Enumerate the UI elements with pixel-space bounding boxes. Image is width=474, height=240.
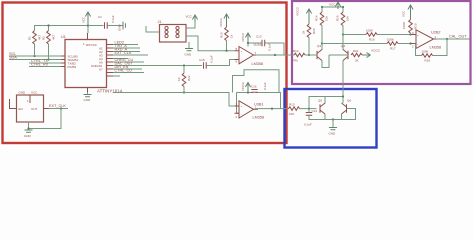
wire: net stub EXT_CLK: [113, 54, 148, 56]
wire: R20 bottom to mirror base rail: [308, 38, 310, 56]
svg-text:CAL_OUT: CAL_OUT: [449, 35, 467, 39]
svg-text:VCC/2: VCC/2: [371, 49, 380, 53]
wire: staircase link net: [233, 70, 280, 93]
wire: R19 to +input node: [410, 33, 412, 35]
svg-text:+: +: [241, 49, 243, 53]
wire: Q3 collector diode link: [322, 55, 348, 68]
wire: upper sense net to U2B2: [343, 34, 411, 36]
junction R22 bottom on DAC return wire: [183, 91, 185, 93]
op-amp U2B2: [411, 30, 441, 50]
wire: DAC_OUT long net to filter: [113, 65, 202, 67]
pin stub U1 top (VCC pin): [87, 33, 89, 40]
svg-text:U3B1: U3B1: [254, 102, 264, 106]
pin stubs U1 left: [61, 56, 65, 67]
resistor R18 100K: [422, 50, 433, 63]
capacitor C15 0.1uF (DAC series): [199, 55, 214, 69]
svg-text:GND: GND: [84, 98, 92, 102]
svg-text:R21: R21: [353, 49, 359, 53]
wire: R15 to Q4 emitter: [342, 26, 344, 51]
svg-text:+: +: [241, 105, 243, 109]
svg-text:GND: GND: [185, 53, 193, 57]
svg-text:R18: R18: [425, 59, 431, 63]
svg-text:CTRL_CU: CTRL_CU: [115, 69, 133, 73]
ground under J1: [185, 49, 194, 57]
wire: net stub A7: [113, 75, 120, 77]
resistor R13 10K: [289, 103, 300, 117]
wire: SDA net: [9, 59, 61, 61]
svg-text:RX/B3: RX/B3: [68, 65, 77, 69]
wire: Q6 emitter to gnd rail: [333, 114, 342, 120]
junction sense tap lower: [321, 42, 323, 44]
junction at feedback arrow: [247, 91, 249, 93]
svg-text:VCC/2: VCC/2: [296, 7, 300, 16]
wire: R1 bottom: [34, 44, 36, 56]
svg-text:EN: EN: [19, 107, 23, 111]
wire: J1 top-right pin to VCC: [186, 21, 195, 28]
resistor R1: [28, 31, 42, 45]
junction at VCC feed: [87, 24, 89, 26]
transistor Q3: [317, 44, 322, 61]
wire: C14 bottom to ground rail: [309, 109, 333, 120]
svg-text:-: -: [241, 58, 242, 62]
svg-text:100K: 100K: [366, 29, 373, 33]
svg-text:R12: R12: [293, 49, 299, 53]
svg-text:10k: 10k: [325, 16, 329, 21]
wire: EXT_CLK net at oscillator: [49, 108, 68, 110]
svg-text:J1: J1: [158, 20, 162, 24]
svg-text:R13: R13: [289, 103, 295, 107]
wire: CTRL_RX net: [29, 66, 61, 68]
svg-text:C13: C13: [256, 35, 262, 39]
capacitor C16 (U3B1 feedback): [251, 82, 267, 92]
svg-text:EXT_CLK: EXT_CLK: [49, 104, 66, 108]
junction at U2B2 -input: [409, 42, 411, 44]
svg-text:10k: 10k: [346, 16, 350, 21]
transistor Q6: [342, 99, 352, 115]
supply VCC/2 small arrow at feedback: [241, 33, 251, 43]
svg-text:R10: R10: [220, 32, 224, 38]
wire: SCL net: [9, 55, 61, 57]
svg-text:R1: R1: [28, 36, 32, 40]
junction at EXT_CLK wire: [60, 107, 62, 109]
op-amp U3B1: [235, 101, 265, 120]
wire: J1 bottom pin to ground: [188, 42, 190, 48]
wire: U1 GND pin drop: [87, 92, 89, 94]
supply VCC arrow (left): [82, 12, 91, 26]
svg-text:47k: 47k: [293, 59, 298, 63]
junction at oscillator gnd: [27, 127, 29, 129]
wire: U3B1 output net to R13: [256, 108, 289, 110]
resistor R2: [42, 31, 56, 45]
svg-text:R15: R15: [336, 15, 340, 21]
svg-text:2K: 2K: [355, 59, 359, 63]
resistor R17 100K: [387, 38, 398, 51]
svg-text:R22: R22: [187, 75, 191, 81]
svg-text:VCC: VCC: [402, 10, 406, 17]
svg-text:GND: GND: [19, 91, 27, 95]
svg-text:0.1uF: 0.1uF: [210, 55, 214, 63]
svg-text:2k: 2k: [302, 30, 306, 34]
junction gnd rail: [332, 118, 334, 120]
svg-text:LM358: LM358: [252, 62, 264, 66]
svg-text:R2: R2: [42, 36, 46, 40]
wire: U3B1 feedback rail: [237, 93, 281, 114]
wire: net stub A4: [113, 58, 128, 60]
junction DAC filter node: [183, 64, 185, 66]
svg-text:R17: R17: [390, 47, 396, 51]
wire: net stub LED2: [113, 44, 138, 46]
svg-text:C15: C15: [199, 58, 205, 62]
svg-text:GND: GND: [24, 134, 32, 138]
IC U1 ATTINY1614: [61, 35, 107, 88]
svg-text:0.1uF: 0.1uF: [111, 15, 115, 23]
wire: +input into opamp: [411, 34, 416, 36]
svg-text:VCC: VCC: [186, 15, 193, 19]
wire: mirror top VCC rail: [322, 7, 343, 12]
svg-text:GND: GND: [329, 132, 337, 136]
resistor R10: [220, 27, 234, 41]
svg-text:R19: R19: [414, 23, 418, 29]
supply VCC arrow (R19): [402, 5, 414, 20]
svg-text:U2B2: U2B2: [431, 31, 441, 35]
wire: U2B1 output into purple box to bases: [287, 54, 317, 56]
svg-text:R20: R20: [312, 28, 316, 34]
svg-text:C14: C14: [312, 109, 318, 113]
wire: VCC rail to decoupling cap: [88, 25, 104, 27]
wire: CTRL_TX net: [29, 62, 61, 64]
svg-text:100K: 100K: [387, 38, 394, 42]
svg-text:-: -: [417, 42, 418, 46]
wire: J1 left pin: [146, 26, 160, 32]
pin stub U1 bottom (GND pin): [87, 88, 89, 93]
wire: R2 bottom: [48, 44, 50, 60]
svg-text:-: -: [241, 113, 242, 117]
wire: U2B2 output CAL_OUT: [436, 38, 470, 40]
wire: cap to ground: [107, 25, 122, 27]
wire: oscillator ground return: [29, 109, 62, 130]
wire: cap C15 to inverting input riser: [206, 60, 234, 66]
supply VCC/2 arrow with series resistor R10: [219, 14, 229, 27]
wire: net stub CHRG_CU: [113, 61, 144, 63]
junction Q5 base node: [308, 108, 310, 110]
resistor R19 100K: [402, 20, 418, 34]
svg-text:R16: R16: [369, 38, 375, 42]
resistor R22 1K (to DAC wire): [177, 73, 191, 87]
resistor R15 10k: [336, 12, 350, 26]
transistor Q5: [318, 99, 325, 115]
svg-text:Q4: Q4: [341, 44, 345, 48]
svg-text:1k: 1k: [230, 34, 234, 38]
svg-text:VCC: VCC: [329, 3, 336, 7]
wire: long lower DAC return net: [113, 93, 235, 107]
svg-text:SDA: SDA: [9, 56, 17, 60]
svg-text:100K: 100K: [402, 22, 406, 29]
frame: purple group box: [292, 1, 471, 84]
resistor R20 2k: [302, 24, 317, 38]
svg-text:GND: GND: [118, 24, 122, 32]
wire: Q4 collector long drop to blue box: [342, 61, 344, 104]
junction on rail at R2 top: [47, 24, 49, 26]
svg-text:0.1uF: 0.1uF: [263, 82, 267, 90]
transistor Q4: [341, 44, 348, 61]
wire: net stub RXD_A: [113, 51, 140, 53]
wire: U2B1 feedback top rail: [248, 43, 284, 55]
junction at U2B2 +input: [409, 33, 411, 35]
capacitor C14 0.1uF: [304, 109, 317, 127]
svg-text:VCC/2: VCC/2: [241, 82, 245, 91]
supply VCC/2 right-pointing arrow: [362, 49, 380, 58]
wire: U2B1 output net: [256, 54, 287, 56]
resistor R21 2K: [351, 49, 362, 63]
svg-text:VCC/2: VCC/2: [241, 33, 245, 42]
svg-text:U1: U1: [61, 35, 66, 39]
resistor R16 100K: [366, 29, 377, 42]
capacitor C1 0.1uF: [98, 15, 115, 29]
oscillator X1: [17, 91, 44, 123]
ground under U1: [84, 95, 92, 103]
junction SCL/R1: [33, 55, 35, 57]
svg-text:RST/A0: RST/A0: [86, 43, 97, 47]
svg-text:OUT: OUT: [31, 107, 38, 111]
wire: R13 to Q5 base node: [300, 108, 317, 110]
svg-text:4K7: 4K7: [52, 34, 56, 40]
supply VCC arrow (J1): [186, 15, 198, 23]
frame: blue group box: [285, 89, 377, 148]
wire: R22 column: [183, 66, 185, 93]
pin stub X1 right (OUT): [44, 108, 50, 110]
junction at U2B1 output: [274, 54, 276, 56]
svg-text:C1: C1: [98, 15, 102, 19]
svg-text:C16: C16: [251, 85, 257, 89]
svg-text:0.1uF: 0.1uF: [304, 123, 312, 127]
svg-text:VCC/2: VCC/2: [219, 18, 223, 27]
frame: main red sheet border: [3, 3, 287, 144]
svg-text:1K: 1K: [177, 77, 181, 81]
svg-text:LM358: LM358: [430, 46, 442, 50]
svg-text:CTRL_RX: CTRL_RX: [31, 63, 49, 67]
wire: net stub DIR_EN: [113, 68, 142, 70]
ground under oscillator: [24, 130, 33, 138]
supply VCC/2 small arrow (lower feedback): [241, 82, 251, 93]
svg-text:+: +: [417, 33, 419, 37]
wire: Q5 emitter to gnd rail: [324, 114, 326, 120]
wire: net stub TXD_A: [113, 47, 140, 49]
svg-text:R14: R14: [315, 15, 319, 21]
junction at U3B1 output: [271, 108, 273, 110]
capacitor C13 (feedback): [256, 35, 272, 52]
svg-text:10K: 10K: [289, 112, 294, 116]
junction feedback tee: [247, 42, 249, 44]
ground (horizontal, left cap): [118, 22, 126, 32]
junction sense tap upper: [342, 33, 344, 35]
svg-text:A7: A7: [99, 67, 103, 71]
svg-text:LM358: LM358: [253, 116, 265, 120]
wire: net stub CTRL_CU: [113, 72, 144, 74]
resistor R12 47k: [293, 49, 305, 63]
junction at opamp U2B1 +input: [225, 50, 227, 52]
svg-text:VCC: VCC: [31, 91, 38, 95]
supply VCC arrow (mirror): [329, 2, 341, 9]
junction base node: [308, 54, 310, 56]
svg-text:Q3: Q3: [317, 44, 321, 48]
pin stubs U1 right: [107, 45, 114, 77]
svg-text:EXT_CLK: EXT_CLK: [115, 51, 132, 55]
svg-text:VCC: VCC: [82, 16, 86, 23]
svg-text:Q6: Q6: [347, 99, 351, 103]
pin stub X1 left (EN): [10, 99, 17, 109]
svg-text:Q5: Q5: [318, 99, 322, 103]
wire: pull-up rail to VCC: [35, 26, 89, 34]
wire: U2B2 feedback loop: [416, 39, 448, 56]
wire: lower sense net to U2B2: [322, 43, 416, 45]
junction at output feedback tap: [446, 38, 448, 40]
ground (blue box): [329, 128, 338, 136]
wire: J1 right pin to opamp non-inverting input: [186, 36, 235, 51]
op-amp U2B1: [235, 43, 264, 66]
wire: R10 to +input node: [226, 41, 228, 51]
supply VCC/2 arrow (purple box, R20): [296, 7, 312, 24]
svg-text:100K: 100K: [422, 50, 429, 54]
wire: gnd drop: [332, 120, 334, 128]
wire: base node up to Q5 collector: [309, 97, 343, 109]
junction SDA/R2: [47, 58, 49, 60]
wire: R14 to Q3 emitter: [321, 26, 323, 51]
resistor R14 10k: [315, 12, 329, 26]
svg-text:0.1uF: 0.1uF: [268, 43, 272, 51]
wire: Q6 base diode link: [342, 109, 356, 120]
connector J1 2x3 header: [158, 20, 187, 42]
